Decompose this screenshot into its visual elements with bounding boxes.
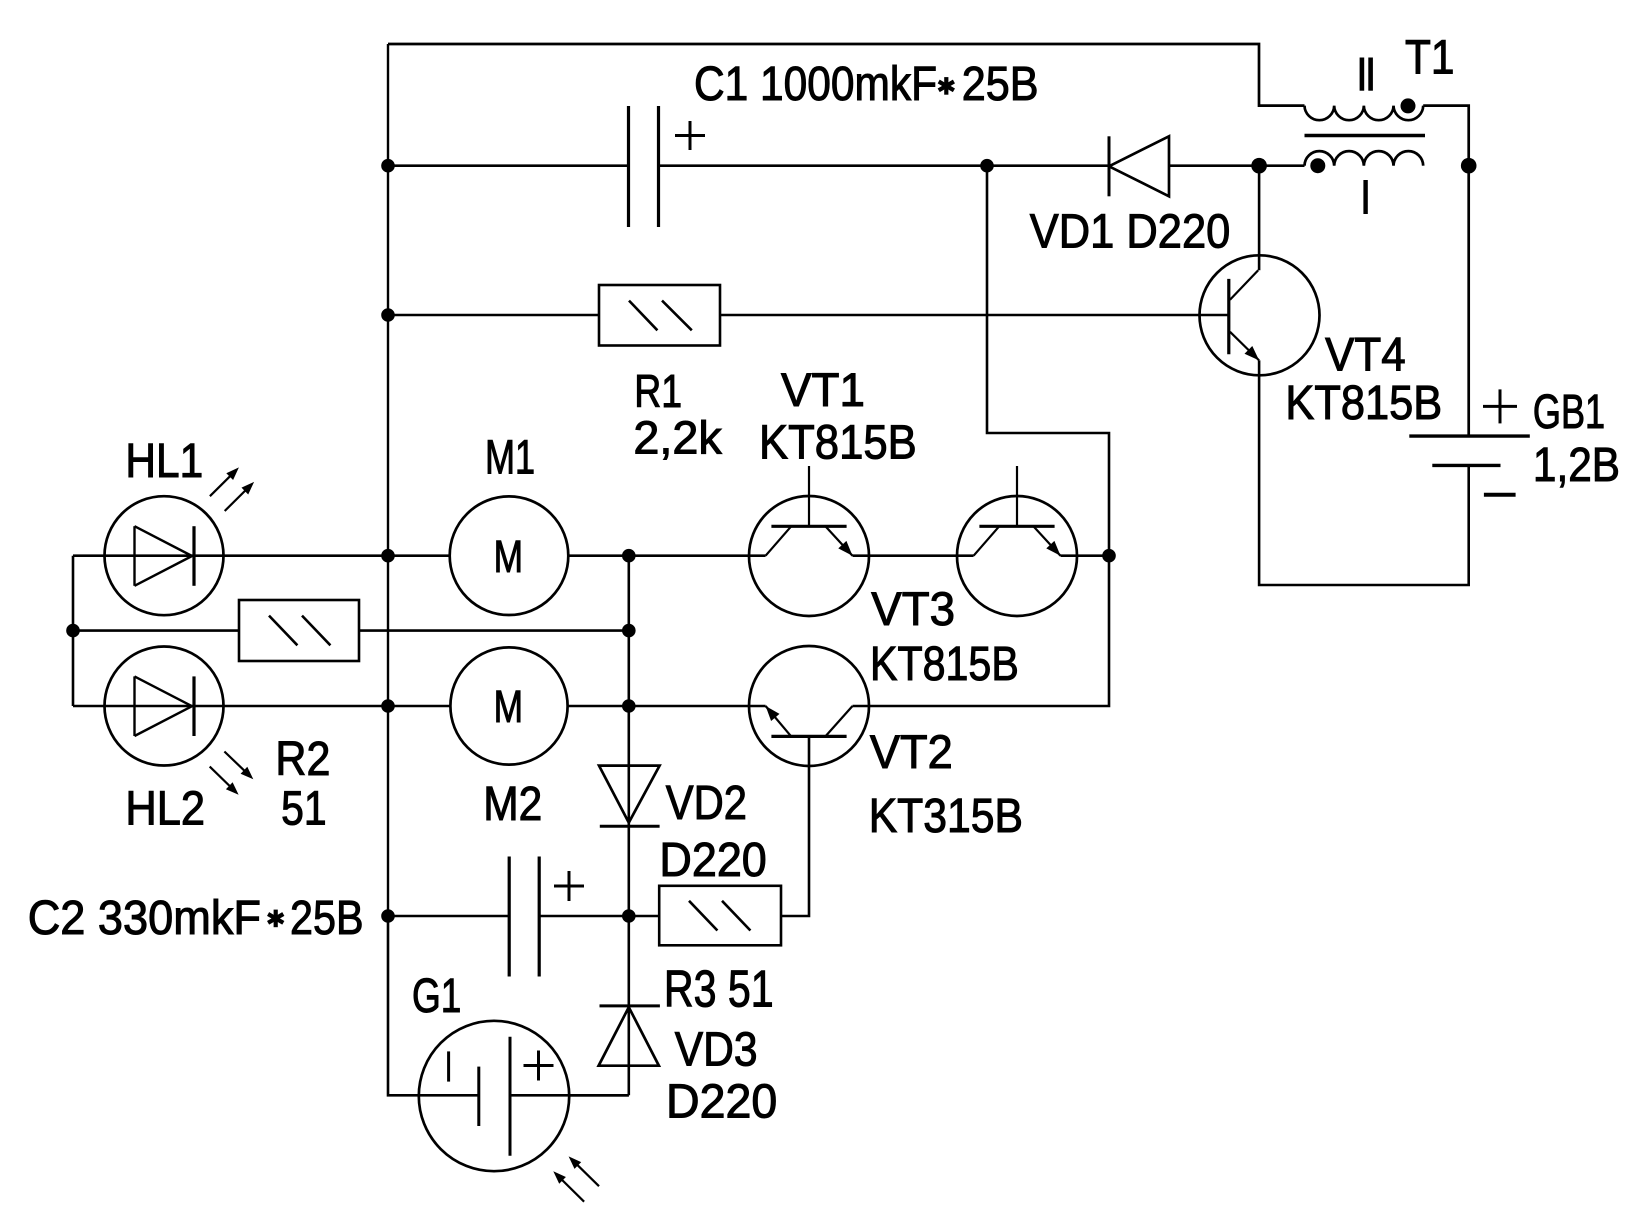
svg-text:VT1: VT1 bbox=[781, 363, 865, 416]
transistor VT1 KT815B bbox=[749, 496, 869, 616]
wire M1 to VT1 bbox=[568, 554, 765, 557]
svg-text:25B: 25B bbox=[962, 58, 1039, 111]
svg-text:VD2: VD2 bbox=[666, 777, 747, 830]
wire VT4 collector bbox=[1258, 166, 1261, 271]
LED HL1 bbox=[105, 496, 224, 615]
svg-text:R3 51: R3 51 bbox=[664, 961, 774, 1019]
wire R1 row left bbox=[388, 314, 599, 317]
wire R2 row right bbox=[359, 629, 629, 632]
diode VD2 D220 bbox=[599, 766, 660, 823]
wire top rail bbox=[388, 44, 1305, 106]
resistor R1 bbox=[599, 285, 720, 346]
label winding I bbox=[1363, 180, 1367, 214]
wire VT1 to VT3 bbox=[853, 554, 974, 557]
svg-text:VT4: VT4 bbox=[1325, 328, 1406, 381]
G1 plus sign bbox=[524, 1064, 554, 1067]
svg-text:HL1: HL1 bbox=[125, 435, 203, 488]
wire G1 right inner bbox=[510, 1094, 629, 1097]
wire G1 left bbox=[388, 916, 479, 1095]
svg-text:VD1 D220: VD1 D220 bbox=[1030, 205, 1231, 258]
wire C2 right bbox=[539, 915, 629, 918]
HL2 emission arrows bbox=[224, 752, 249, 776]
svg-text:M: M bbox=[494, 681, 523, 732]
svg-text:D220: D220 bbox=[659, 834, 766, 887]
T1 winding II phasing dot bbox=[1401, 98, 1416, 113]
wire R2 row left bbox=[73, 629, 239, 632]
wire R3 left bbox=[629, 915, 659, 918]
capacitor C1 bbox=[627, 106, 630, 227]
svg-text:R1: R1 bbox=[634, 365, 682, 417]
resistor R2 bbox=[239, 600, 359, 661]
wire VD1 to T1 winding I bbox=[1169, 164, 1305, 167]
svg-text:VT3: VT3 bbox=[871, 582, 955, 635]
GB1 plus sign bbox=[1483, 405, 1517, 408]
C1 plus sign bbox=[675, 134, 705, 137]
svg-text:VT2: VT2 bbox=[870, 725, 953, 778]
svg-text:M1: M1 bbox=[485, 431, 535, 484]
wire G1 bottom bbox=[569, 1094, 629, 1097]
svg-text:HL2: HL2 bbox=[125, 782, 205, 835]
svg-text:VD3: VD3 bbox=[675, 1023, 758, 1076]
transistor VT4 KT815B bbox=[1200, 255, 1320, 375]
transistor VT3 KT815B bbox=[957, 496, 1077, 616]
diode VD1 D220 bbox=[1108, 136, 1111, 196]
svg-text:R2: R2 bbox=[275, 733, 330, 786]
transformer T1 winding II bbox=[1305, 106, 1424, 121]
wire VT4 emitter to battery minus (bottom rail) bbox=[1259, 360, 1469, 585]
svg-text:T1: T1 bbox=[1405, 32, 1455, 85]
wire left vertical bus bbox=[387, 44, 389, 916]
wire M2 to VT2 bbox=[567, 705, 766, 708]
svg-text:KT815B: KT815B bbox=[1285, 377, 1442, 430]
T1 winding I phasing dot bbox=[1310, 158, 1325, 173]
label winding II bbox=[1360, 58, 1365, 91]
resistor R3 bbox=[659, 886, 781, 946]
wire R3 right to VT2 base bbox=[781, 737, 809, 916]
battery GB1 bbox=[1409, 434, 1530, 437]
node VD1/T1/VT4 junction bbox=[1251, 158, 1267, 174]
svg-text:KT815B: KT815B bbox=[870, 638, 1019, 691]
wire HL1 row bbox=[73, 554, 450, 557]
wire HL2 row bbox=[73, 705, 451, 708]
wire C1 row right bbox=[659, 164, 1110, 167]
svg-text:M2: M2 bbox=[483, 778, 542, 831]
svg-text:C2 330mkF: C2 330mkF bbox=[28, 892, 261, 945]
LED HL2 bbox=[105, 647, 224, 766]
wire C1 row left bbox=[388, 164, 629, 167]
wire VD1 junction down to VT1/VT3 row bbox=[987, 166, 1109, 556]
transistor VT2 KT315B bbox=[749, 646, 869, 766]
C2 plus sign bbox=[554, 885, 584, 888]
GB1 minus sign bbox=[1484, 493, 1516, 497]
junction dots bbox=[381, 159, 395, 173]
motor M2 bbox=[450, 647, 567, 764]
solar cell G1 bbox=[419, 1021, 569, 1171]
svg-text:51: 51 bbox=[281, 782, 327, 835]
wire R1 row to VT4 base bbox=[720, 314, 1229, 317]
transformer T1 winding I bbox=[1305, 151, 1424, 166]
svg-text:1,2B: 1,2B bbox=[1533, 439, 1620, 492]
wire VT2 emitter to VT3 junction bbox=[853, 556, 1110, 706]
capacitor C2 bbox=[508, 857, 511, 977]
svg-text:D220: D220 bbox=[666, 1075, 777, 1128]
svg-text:C1 1000mkF: C1 1000mkF bbox=[694, 58, 937, 111]
wire T1 winding I right to battery top bbox=[1423, 106, 1469, 437]
T1 core bbox=[1305, 134, 1426, 138]
svg-text:KT315B: KT315B bbox=[869, 790, 1023, 843]
wire HL lamps left vertical bbox=[72, 556, 75, 706]
diode VD3 D220 bbox=[600, 1004, 660, 1007]
svg-text:GB1: GB1 bbox=[1533, 386, 1605, 439]
wire VT3 to junction bbox=[1061, 554, 1110, 557]
node T1/battery junction bbox=[1461, 158, 1477, 174]
svg-text:25B: 25B bbox=[290, 892, 364, 945]
wire center vertical bus bbox=[627, 556, 630, 1096]
wire C2 left bbox=[388, 915, 509, 918]
HL1 emission arrows bbox=[210, 471, 235, 496]
G1 minus tick bbox=[447, 1051, 450, 1081]
svg-text:G1: G1 bbox=[412, 970, 461, 1023]
svg-text:2,2k: 2,2k bbox=[633, 411, 722, 463]
svg-text:KT815B: KT815B bbox=[759, 416, 917, 469]
motor M1 bbox=[450, 496, 569, 615]
svg-text:M: M bbox=[494, 531, 523, 582]
G1 light arrows bbox=[573, 1160, 600, 1186]
